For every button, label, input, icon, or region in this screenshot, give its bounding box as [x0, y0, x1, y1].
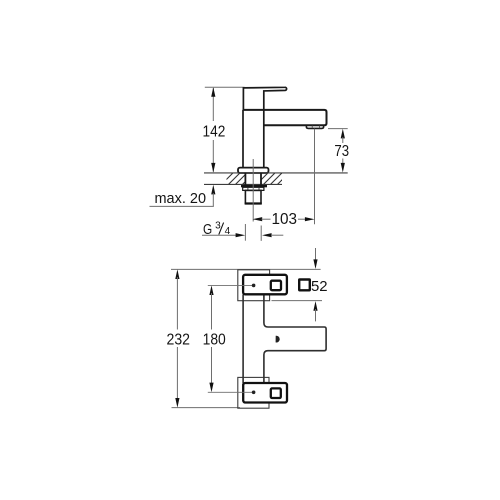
lever [243, 87, 286, 110]
body column left [242, 295, 244, 384]
nut [243, 187, 264, 190]
shank sides through counter [244, 173, 246, 185]
threaded shank [245, 190, 261, 203]
180 top extension line with center dot [208, 284, 254, 286]
washer [241, 185, 267, 187]
tap body left edge [242, 110, 244, 168]
180 bottom extension line with center dot [208, 391, 254, 393]
dimension 142 lower segment with down arrow [212, 140, 214, 172]
base flange [238, 168, 269, 173]
dimension 232 [175, 269, 179, 279]
bottom union flange square [238, 377, 269, 408]
svg-text:142: 142 [203, 124, 226, 141]
bottom union port square [271, 388, 281, 398]
svg-text:180: 180 [203, 331, 226, 348]
232 top extension line [171, 268, 321, 270]
countertop top line [204, 172, 348, 174]
body right edge and spout arm [264, 295, 326, 384]
aerator extension line [314, 129, 316, 225]
shank extension lines below [244, 224, 246, 241]
dimension 180 [209, 285, 213, 295]
countertop bottom line [204, 183, 282, 185]
top union port square [271, 281, 281, 291]
dimension 73 [341, 129, 345, 139]
hatch of countertop section [215, 173, 297, 185]
tap body right edge [263, 110, 265, 168]
232 bottom extension line [172, 407, 241, 409]
dimension 142 upper segment with up arrow [212, 88, 214, 121]
top union flange square [238, 270, 270, 301]
dimension 103 [253, 217, 263, 221]
extension line: lever top [205, 86, 245, 88]
centerline of tap [252, 159, 254, 222]
top union body [243, 275, 287, 295]
svg-text:232: 232 [167, 331, 191, 348]
svg-text:103: 103 [272, 211, 298, 228]
52 dim upper arrow [315, 248, 317, 260]
svg-text:73: 73 [334, 143, 349, 160]
opposing left arrow at shank right extension [262, 233, 272, 237]
73 top extension line (aerator level) [328, 128, 348, 130]
svg-text:max. 20: max. 20 [155, 190, 207, 207]
spout hole mark [276, 336, 280, 343]
max.20 up arrow below counter [211, 185, 215, 195]
max.20 leader line [150, 205, 214, 207]
52 dim lower arrow [313, 301, 317, 311]
tap body top edge and spout outline [243, 110, 327, 125]
svg-text:52: 52 [311, 278, 328, 295]
aerator [306, 125, 323, 128]
bottom union body [243, 383, 287, 403]
G3/4 leader with right arrow [202, 234, 238, 236]
label square 52 [299, 280, 310, 291]
52 lower extension line [272, 300, 323, 302]
